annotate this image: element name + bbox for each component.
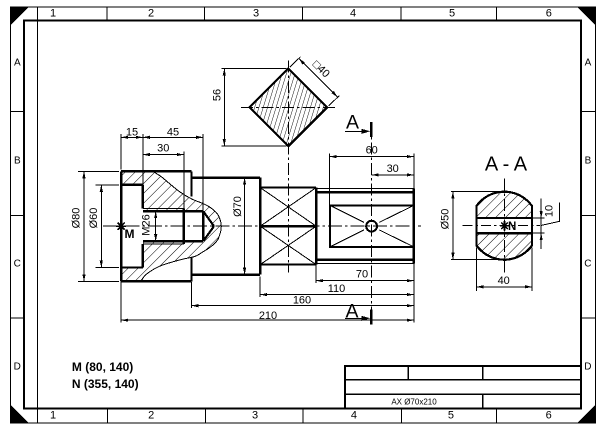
dimension 40 [476, 286, 532, 288]
svg-text:Ø80: Ø80 [71, 208, 83, 229]
section A-A hatching [476, 192, 532, 260]
section A-A outline [476, 192, 532, 260]
top zone divider 4 [400, 7, 402, 21]
dimension 30 (hole to end) [372, 174, 414, 176]
right zone divider 2 [581, 215, 596, 217]
svg-text:10: 10 [544, 205, 556, 217]
svg-text:Ø50: Ø50 [439, 209, 451, 230]
recess D60 bottom line [121, 267, 143, 269]
square section right face [315, 188, 317, 265]
main axis centerline [103, 225, 421, 227]
drill cone lower [203, 226, 214, 241]
top zone divider 3 [302, 7, 304, 21]
ext line right end up [413, 153, 415, 188]
svg-text:160: 160 [293, 295, 311, 307]
ext line flat right down [531, 247, 533, 290]
svg-text:15: 15 [126, 126, 138, 138]
D54 top line (thin) [316, 188, 414, 190]
svg-text:6: 6 [546, 8, 552, 20]
ext line D50 bottom [451, 259, 502, 261]
pocket flat diagonal 2a [379, 205, 414, 222]
svg-text:M (80, 140): M (80, 140) [72, 360, 133, 374]
ext line D80 bottom [78, 280, 119, 282]
svg-text:AX Ø70x210: AX Ø70x210 [391, 397, 437, 406]
square section outline (rotated) [250, 69, 328, 147]
svg-text:30: 30 [157, 143, 169, 155]
ext line diamond bottom [222, 145, 287, 147]
ext line step down [190, 282, 192, 308]
svg-text:Ø60: Ø60 [88, 208, 100, 229]
ext line slot top right [533, 217, 545, 219]
svg-text:210: 210 [259, 310, 277, 322]
dimension D80 [83, 171, 85, 281]
square flat diagonal 1 [260, 188, 316, 227]
ext line D60 top [96, 184, 120, 186]
title block divider c [482, 394, 484, 408]
svg-text:A: A [346, 112, 359, 134]
thread major bottom line (thin) [143, 243, 184, 245]
recess bottom face lower [142, 244, 144, 268]
section A-A slot top line [476, 217, 532, 219]
dimension 210 [121, 319, 414, 321]
dimension 70 [316, 280, 414, 282]
bottom zone divider 4 [401, 409, 403, 424]
section arrow bottom [345, 317, 368, 319]
svg-text:4: 4 [351, 410, 357, 422]
point M marker [116, 225, 126, 227]
D70 top outline [191, 177, 260, 179]
flange right face bottom edge [190, 257, 192, 281]
square section bottom outline [260, 264, 316, 266]
break line of broken-out section [141, 171, 222, 281]
svg-text:3: 3 [252, 410, 258, 422]
thread major top line (thin) [143, 208, 184, 210]
section hatching (broken-out section) [121, 171, 221, 281]
svg-text:30: 30 [387, 163, 399, 175]
dimension 110 [260, 294, 414, 296]
svg-text:D: D [584, 362, 591, 373]
svg-text:2: 2 [148, 8, 154, 20]
drill cone upper [203, 211, 214, 226]
diamond horizontal centerline [241, 106, 336, 108]
title block row line 2 [345, 393, 581, 395]
square section middle edge [260, 225, 316, 227]
dimension 10 (slot) [540, 198, 542, 249]
diamond hatching [250, 69, 328, 147]
dimension 15 [121, 136, 143, 138]
dimension 45 [143, 136, 203, 138]
flange right face top edge [190, 171, 192, 196]
svg-text:Ø70: Ø70 [232, 196, 244, 217]
ext line square left down [259, 277, 261, 297]
section A-A vertical centerline [503, 179, 505, 276]
section A-A slot bottom line [476, 232, 532, 234]
svg-text:6: 6 [546, 410, 552, 422]
svg-text:A: A [585, 58, 592, 69]
corner triangle bottom-left [10, 405, 28, 423]
svg-text:B: B [585, 156, 592, 167]
top zone divider 5 [496, 7, 498, 21]
section plane A-A centerline [371, 122, 373, 325]
shaft right end face [413, 189, 415, 264]
point N marker [500, 225, 509, 227]
svg-text:N: N [508, 221, 516, 233]
corner triangle top-left [10, 7, 28, 25]
dimension D70 [244, 178, 246, 275]
ext line recess bottom up [142, 134, 144, 185]
square section left face [259, 178, 261, 275]
svg-text:45: 45 [167, 126, 179, 138]
svg-text:D: D [14, 362, 21, 373]
svg-text:70: 70 [356, 268, 368, 280]
cross hole D10 [366, 221, 377, 232]
recess D60 top line [121, 184, 143, 186]
left margin line [36, 7, 38, 423]
svg-text:4: 4 [350, 8, 356, 20]
ext line pocket step down [315, 264, 317, 283]
title block row line 1 [345, 379, 581, 381]
ext line thread end up [183, 151, 185, 211]
section arrow top [345, 130, 368, 132]
svg-text:A: A [14, 58, 21, 69]
svg-text:1: 1 [50, 8, 56, 20]
svg-text:N (355, 140): N (355, 140) [72, 377, 139, 391]
square flat diagonal 3 [260, 226, 316, 264]
svg-text:56: 56 [211, 89, 223, 101]
ext line D60 bottom [96, 267, 120, 269]
thread minor bottom line [143, 240, 203, 242]
dimension 160 [191, 305, 413, 307]
square flat diagonal 4 [260, 226, 316, 264]
ext line D50 top [451, 191, 502, 193]
flange D80 top outline [121, 170, 191, 172]
title block divider b [482, 366, 484, 380]
ext line slot bottom right [533, 232, 545, 234]
svg-text:60: 60 [366, 145, 378, 157]
pocket flat diagonal 2b [330, 230, 364, 247]
svg-text:5: 5 [449, 8, 455, 20]
dimension D60 [100, 185, 102, 268]
D50 top outline [316, 191, 414, 193]
svg-text:M: M [125, 227, 135, 241]
flange D80 bottom outline [121, 280, 191, 282]
svg-text:40: 40 [498, 275, 510, 287]
milled flat pocket outline [330, 205, 414, 247]
pocket flat diagonal 1b [379, 230, 414, 247]
ext line pocket left up [329, 153, 331, 206]
ext line drill end up [202, 134, 204, 211]
bottom zone divider 5 [496, 409, 498, 424]
ext line right end down [413, 263, 415, 322]
svg-text:3: 3 [253, 8, 259, 20]
title block divider a [407, 366, 409, 380]
left zone divider 2 [10, 215, 24, 217]
D70 bottom outline [191, 274, 260, 276]
D50 bottom outline [316, 259, 414, 261]
pocket flat diagonal 1a [330, 205, 364, 222]
square section top outline [260, 187, 316, 189]
dimension D50 [452, 192, 454, 260]
square flat diagonal 2 [260, 188, 316, 227]
dimension 60 [330, 156, 414, 158]
dimension square-40 [299, 58, 338, 97]
top zone divider 1 [106, 7, 108, 21]
section A-A horizontal centerline [462, 225, 540, 227]
shaft left face [120, 171, 122, 281]
svg-text:M26: M26 [140, 214, 152, 235]
svg-text:A: A [345, 301, 358, 323]
svg-text:5: 5 [448, 410, 454, 422]
bottom zone divider 1 [106, 409, 108, 424]
svg-text:C: C [584, 259, 591, 270]
corner triangle bottom-right [577, 405, 595, 423]
svg-text:A - A: A - A [485, 154, 528, 176]
svg-text:C: C [14, 259, 21, 270]
ext line flat left down [475, 247, 477, 290]
svg-text:B: B [14, 156, 21, 167]
thread minor top line [143, 210, 203, 212]
bottom zone divider 2 [204, 409, 206, 424]
dimension 30 (thread) [143, 154, 184, 156]
thread end line [183, 209, 185, 244]
svg-text:2: 2 [148, 410, 154, 422]
ext line left face up [120, 134, 122, 169]
D54 bottom line (thin) [316, 262, 414, 264]
right zone divider 1 [581, 111, 596, 113]
dimension 56 [223, 69, 225, 147]
square/diamond axis centerline [287, 61, 289, 273]
ext line D80 top [78, 170, 119, 172]
ext line diamond top [222, 68, 287, 70]
title block outline [345, 366, 581, 409]
ext line left face down [120, 282, 122, 323]
top zone divider 2 [204, 7, 206, 21]
corner triangle top-right [577, 7, 595, 25]
recess bottom face upper [142, 185, 144, 209]
svg-text:1: 1 [50, 410, 56, 422]
drill end line [202, 211, 204, 241]
left zone divider 3 [10, 317, 24, 319]
dimension M26 thread [155, 211, 157, 241]
svg-text:110: 110 [328, 283, 346, 295]
bottom zone divider 3 [302, 409, 304, 424]
left zone divider 1 [10, 111, 24, 113]
right zone divider 3 [581, 317, 596, 319]
